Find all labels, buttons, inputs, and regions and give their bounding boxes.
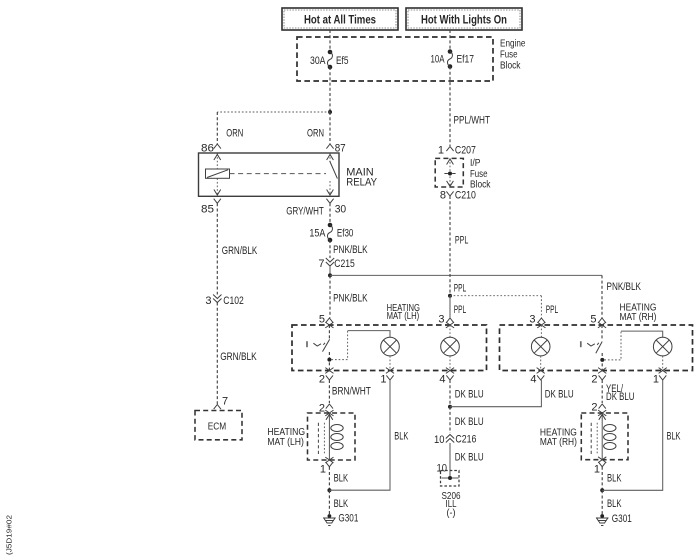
svg-text:Hot With Lights On: Hot With Lights On [421, 13, 507, 27]
wire C215 to PNK/BLK junction [329, 266, 331, 275]
svg-text:5: 5 [590, 314, 596, 326]
wire ORN down to relay pin 87 [307, 112, 330, 144]
svg-text:MAT (RH): MAT (RH) [620, 311, 657, 323]
svg-text:10: 10 [437, 462, 448, 474]
RH lamp wire down to pin 1 [662, 356, 664, 371]
ECM module box [195, 411, 242, 440]
wire PPL/WHT fuse Ef17 to C207 [450, 67, 490, 147]
LH heater element pin 2 terminal [319, 403, 334, 416]
wire from Hot With Lights On into fuse block [449, 30, 451, 52]
RH heater element pin 2 terminal [591, 402, 606, 416]
svg-text:2: 2 [319, 373, 325, 385]
svg-text:4: 4 [530, 373, 536, 385]
wire YEL/DK BLU RH pin2 to heater element [602, 380, 634, 403]
wire BLK junction to ground G301 [329, 490, 348, 514]
svg-text:GRY/WHT: GRY/WHT [286, 206, 324, 218]
RH mat pin 4 terminal [530, 368, 544, 386]
svg-text:BLK: BLK [607, 498, 622, 510]
junction inside LH mat [327, 358, 331, 362]
svg-text:BLK: BLK [667, 431, 681, 443]
svg-text:BLK: BLK [334, 472, 349, 484]
svg-text:30A: 30A [310, 55, 326, 67]
svg-text:DK BLU: DK BLU [455, 451, 484, 463]
wire PNK/BLK down to LH mat pin 5 [330, 275, 368, 317]
svg-text:C216: C216 [455, 434, 476, 446]
svg-text:3: 3 [205, 295, 211, 307]
relay coil [206, 154, 230, 196]
wire GRY/WHT relay 30 to fuse Ef30 [286, 203, 330, 225]
wire BLK LH heater pin1 to ground junction [329, 467, 348, 490]
svg-text:PNK/BLK: PNK/BLK [607, 281, 642, 293]
svg-text:MAT (LH): MAT (LH) [267, 436, 304, 448]
wire DK BLU LH pin4 down to junction [450, 380, 484, 407]
wire ORN branch left [217, 112, 330, 144]
relay switch contact [327, 154, 338, 196]
wire PPL C210 down to PPL junction [450, 196, 468, 296]
wire DK BLU junction down to C216 [450, 407, 484, 433]
svg-text:(-): (-) [447, 508, 456, 519]
LH thermostat switch [307, 325, 330, 371]
wire BLK junction to ground G301 [602, 490, 622, 514]
wire PNK/BLK horizontal run to right side [330, 274, 602, 276]
svg-text:C207: C207 [455, 145, 476, 157]
LH mat pin 2 terminal [319, 368, 334, 386]
svg-text:(J5D19#02: (J5D19#02 [5, 515, 14, 555]
svg-text:8: 8 [440, 190, 446, 202]
ECM pin 7 terminal [214, 396, 228, 410]
wire DK BLU across to RH pin4 [450, 380, 574, 407]
HEATING MAT (LH) switch assembly box [292, 302, 487, 371]
svg-text:DK BLU: DK BLU [455, 389, 484, 401]
svg-text:10: 10 [434, 434, 445, 446]
connector C210 pin 8 [440, 190, 476, 202]
junction: PNK/BLK distribution node [328, 273, 332, 277]
svg-text:1: 1 [653, 373, 659, 385]
svg-text:DK BLU: DK BLU [455, 416, 484, 428]
LH mat pin 4 terminal [439, 368, 454, 386]
svg-text:G301: G301 [338, 513, 358, 525]
relay pin 85 terminal [201, 199, 221, 216]
svg-text:GRN/BLK: GRN/BLK [222, 245, 258, 257]
LH mat pin 1 terminal [380, 368, 394, 386]
LH indicator lamp (switch side) [381, 337, 400, 356]
svg-text:Fuse: Fuse [470, 169, 488, 180]
LH heater element pin 1 terminal [320, 457, 334, 475]
svg-text:1: 1 [320, 463, 326, 475]
svg-text:7: 7 [318, 258, 324, 270]
svg-text:PPL: PPL [455, 235, 469, 247]
Engine Fuse Block enclosure [297, 37, 526, 81]
RH heater element pin 1 terminal [594, 457, 606, 476]
LH illumination lamp [441, 325, 460, 371]
svg-text:G301: G301 [612, 513, 632, 525]
LH lamp wire down to pin 1 [389, 356, 391, 371]
junction: LH BLK ground node [327, 488, 331, 492]
ground G301 (right) [596, 513, 632, 526]
svg-text:BLK: BLK [334, 498, 349, 510]
connector C216 pin 10 [434, 434, 476, 447]
svg-text:1: 1 [594, 463, 600, 475]
wire ORN: fuse Ef5 down to junction [329, 67, 331, 112]
junction: PPL distribution node [448, 294, 452, 298]
wire BLK RH heater pin1 to ground junction [602, 467, 622, 491]
svg-text:7: 7 [222, 396, 228, 408]
fuse Ef17 10A [431, 49, 475, 69]
svg-text:85: 85 [201, 204, 214, 216]
HEATING MAT (RH) heater element box [540, 413, 628, 460]
svg-text:Ef5: Ef5 [336, 55, 349, 67]
wire from LH switch junction up to indicator lamp [331, 331, 390, 360]
ground G301 (left) [323, 513, 358, 526]
RH indicator lamp (switch side) [653, 337, 672, 356]
LH heater element coil [318, 413, 343, 460]
junction: RH BLK ground node [600, 488, 604, 492]
svg-text:C210: C210 [455, 190, 476, 202]
svg-text:Block: Block [500, 61, 521, 72]
svg-text:Engine: Engine [500, 39, 526, 50]
RH thermostat switch [581, 325, 602, 371]
fuse Ef30 15A [309, 223, 353, 243]
wire GRN/BLK C102 to ECM [217, 303, 257, 405]
svg-text:Fuse: Fuse [500, 50, 518, 61]
svg-text:2: 2 [591, 402, 597, 414]
wire from RH switch junction up to indicator lamp [604, 331, 662, 360]
wire DK BLU C216 to splice S206 [450, 443, 484, 478]
svg-text:4: 4 [439, 373, 445, 385]
RH heater element coil [591, 413, 616, 460]
LH mat pin 3 terminal [438, 314, 454, 328]
RH illumination lamp [531, 325, 550, 371]
svg-text:ORN: ORN [307, 128, 324, 140]
svg-text:MAT (RH): MAT (RH) [540, 436, 577, 448]
svg-text:GRN/BLK: GRN/BLK [220, 351, 257, 363]
power feed box: Hot at All Times [282, 8, 398, 30]
svg-text:PNK/BLK: PNK/BLK [333, 244, 368, 256]
LH mat pin 5 terminal [319, 314, 334, 328]
svg-text:MAT (LH): MAT (LH) [387, 310, 420, 322]
HEATING MAT (LH) heater element box [267, 413, 355, 460]
wire PNK/BLK fuse Ef30 to C215 [330, 240, 368, 258]
splice S206 pin 10 [437, 462, 461, 519]
relay K1 MAIN RELAY box [199, 153, 378, 196]
svg-text:DK BLU: DK BLU [606, 391, 635, 403]
svg-text:1: 1 [380, 373, 386, 385]
relay pin 87 terminal [326, 143, 345, 155]
svg-text:RELAY: RELAY [346, 177, 377, 189]
svg-text:PPL: PPL [454, 304, 467, 316]
svg-text:Hot at All Times: Hot at All Times [304, 13, 376, 27]
svg-text:I/P: I/P [470, 158, 481, 169]
svg-text:30: 30 [335, 204, 347, 216]
RH mat pin 3 terminal [529, 314, 545, 328]
relay pin 30 terminal [326, 199, 346, 216]
wire PPL down to LH mat pin 3 [450, 296, 466, 318]
svg-text:3: 3 [529, 314, 535, 326]
RH mat pin 1 terminal [653, 368, 667, 386]
relay actuation dashed link [230, 173, 327, 175]
svg-text:BLK: BLK [607, 472, 622, 484]
svg-text:2: 2 [591, 373, 597, 385]
svg-text:PPL: PPL [454, 282, 467, 294]
svg-text:ECM: ECM [208, 422, 227, 433]
svg-text:PPL/WHT: PPL/WHT [454, 115, 491, 127]
RH mat pin 5 terminal [590, 314, 606, 328]
sheet id label [5, 515, 14, 555]
svg-text:Ef17: Ef17 [457, 54, 475, 66]
HEATING MAT (RH) switch assembly box [500, 302, 693, 371]
svg-text:3: 3 [438, 314, 444, 326]
junction: DK BLU node [448, 405, 452, 409]
svg-text:15A: 15A [309, 228, 326, 240]
RH mat pin 2 terminal [591, 368, 606, 386]
I/P Fuse Block box [435, 158, 491, 191]
fuse Ef5 30A [310, 50, 349, 70]
svg-text:PPL: PPL [546, 304, 559, 316]
svg-text:ORN: ORN [226, 128, 243, 140]
svg-text:C215: C215 [334, 258, 355, 270]
power feed box: Hot With Lights On [406, 8, 522, 30]
junction inside RH mat [600, 358, 604, 362]
svg-text:PNK/BLK: PNK/BLK [333, 292, 368, 304]
svg-text:10A: 10A [431, 54, 445, 66]
svg-text:Ef30: Ef30 [337, 228, 354, 240]
wire GRN/BLK relay 85 to C102 [217, 203, 257, 294]
wire PPL branch right to RH mat pin 3 [450, 296, 558, 318]
svg-text:BRN/WHT: BRN/WHT [332, 386, 371, 398]
connector C215 pin 7 [318, 258, 354, 270]
wire BRN/WHT LH pin2 to heater element [329, 380, 371, 403]
wire BLK from RH lamp pin 1 down and across [602, 380, 681, 490]
svg-text:C102: C102 [223, 295, 244, 307]
relay pin 86 terminal [201, 143, 221, 155]
svg-text:DK BLU: DK BLU [545, 389, 574, 401]
junction: ORN branch node [328, 110, 332, 114]
wire BLK from LH lamp pin 1 down and across [329, 380, 408, 490]
connector C102 pin 3 [205, 295, 243, 307]
svg-text:5: 5 [319, 314, 325, 326]
svg-text:1: 1 [438, 145, 444, 157]
wire PNK/BLK down to RH mat pin 5 [602, 275, 641, 317]
wire from Hot at All Times into fuse block [329, 30, 331, 52]
svg-text:BLK: BLK [394, 431, 408, 443]
connector C207 pin 1 [438, 145, 476, 157]
